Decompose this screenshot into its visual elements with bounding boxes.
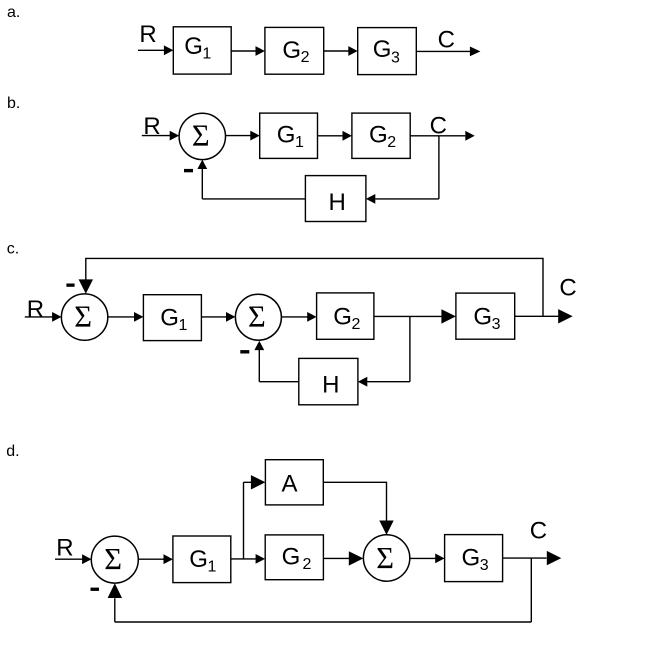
svg-text:G: G [282, 544, 301, 571]
block H (diagram c) [299, 358, 358, 404]
svg-text:G: G [473, 304, 492, 331]
svg-text:C: C [438, 27, 455, 54]
svg-text:R: R [56, 534, 73, 561]
svg-text:G: G [282, 37, 301, 64]
wire R input (diagram c) [25, 316, 53, 318]
wire G1 to G2 (diagram d) [231, 558, 256, 560]
wire sum2 to G2 (diagram c) [281, 316, 308, 318]
summing junction S2 (diagram c) [235, 294, 281, 340]
wire G2 to sum2 (diagram d) [323, 557, 350, 559]
minus sign (diagram d) [91, 588, 100, 591]
svg-text:d.: d. [6, 443, 19, 460]
svg-text:A: A [282, 471, 298, 498]
block G2 (diagram b) [352, 113, 410, 158]
svg-text:G: G [373, 36, 392, 63]
wire A to sum2 (diagram d) [323, 482, 386, 520]
svg-text:C: C [430, 113, 447, 140]
svg-text:Σ: Σ [74, 299, 92, 333]
svg-text:C: C [559, 275, 576, 302]
svg-text:a.: a. [7, 4, 20, 21]
wire outer feedback (diagram c) [86, 258, 543, 316]
wire R input (diagram b) [142, 135, 171, 137]
block A (diagram d) [265, 460, 323, 505]
svg-text:b.: b. [7, 95, 20, 112]
svg-text:G: G [160, 304, 179, 331]
summing junction S2 (diagram d) [363, 535, 409, 581]
wire G2 to G3 (diagram c) [374, 315, 442, 317]
wire feedback right segment (diagram b) [375, 198, 439, 200]
wire feedback left segment (diagram b) [202, 198, 305, 200]
wire sum to G1 (diagram b) [226, 135, 252, 137]
svg-text:3: 3 [492, 316, 501, 333]
svg-text:3: 3 [480, 557, 489, 574]
wire feedback tap (diagram b) [438, 136, 440, 199]
summing junction S1 (diagram d) [91, 536, 138, 583]
svg-text:H: H [329, 189, 346, 216]
wire G1 to sum2 (diagram c) [201, 316, 226, 318]
svg-text:2: 2 [387, 134, 396, 151]
svg-text:G: G [369, 121, 388, 148]
wire feedback up into sum (diagram b) [201, 169, 203, 199]
wire R input (diagram d) [55, 558, 83, 560]
block G2 (diagram a) [265, 27, 324, 74]
wire sum2 to G3 (diagram d) [410, 557, 436, 559]
block G2 (diagram c) [317, 293, 374, 339]
block G1 (diagram c) [143, 295, 201, 341]
wire sum1 to G1 (diagram c) [108, 316, 135, 318]
minus sign outer loop (diagram c) [66, 284, 74, 287]
svg-text:2: 2 [303, 556, 312, 573]
svg-text:G: G [462, 545, 481, 572]
svg-text:2: 2 [352, 316, 361, 333]
block H (diagram b) [305, 176, 366, 222]
svg-text:Σ: Σ [104, 542, 122, 576]
svg-text:G: G [333, 304, 352, 331]
wire branch up to A (diagram d) [244, 482, 252, 559]
wire inner feedback right (diagram c) [367, 381, 410, 383]
wire output C (diagram a) [416, 50, 470, 52]
wire R input (diagram a) [138, 49, 164, 51]
svg-text:1: 1 [208, 559, 217, 576]
svg-text:C: C [530, 518, 547, 545]
block G3 (diagram d) [445, 535, 503, 582]
block G1 (diagram d) [173, 536, 231, 583]
wire feedback up into sum1 (diagram d) [114, 598, 116, 622]
wire G1 to G2 (diagram a) [231, 50, 256, 52]
svg-text:Σ: Σ [192, 119, 210, 153]
svg-text:1: 1 [202, 46, 211, 63]
summing junction S1 (diagram c) [61, 294, 107, 340]
minus sign (diagram b) [184, 169, 193, 172]
svg-text:2: 2 [301, 49, 310, 66]
summing junction S1 (diagram b) [179, 113, 225, 159]
svg-text:H: H [322, 372, 339, 399]
block G3 (diagram c) [456, 293, 515, 339]
block G1 (diagram b) [260, 113, 318, 158]
wire inner feedback tap (diagram c) [409, 316, 411, 381]
wire output C (diagram b) [410, 135, 465, 137]
svg-text:1: 1 [295, 134, 304, 151]
block G1 (diagram a) [173, 27, 231, 74]
wire feedback bottom (diagram d) [115, 621, 532, 623]
wire feedback tap down (diagram d) [530, 558, 532, 622]
svg-text:Σ: Σ [376, 541, 394, 575]
wire G1 to G2 (diagram b) [318, 135, 344, 137]
svg-text:G: G [184, 33, 203, 60]
svg-text:1: 1 [179, 317, 188, 334]
wire output C (diagram c) [515, 315, 559, 317]
minus sign inner loop (diagram c) [240, 350, 249, 353]
svg-text:G: G [189, 546, 208, 573]
svg-text:3: 3 [391, 49, 400, 66]
svg-text:R: R [139, 21, 156, 48]
svg-text:R: R [27, 296, 44, 323]
wire sum1 to G1 (diagram d) [138, 558, 164, 560]
wire G2 to G3 (diagram a) [324, 50, 349, 52]
block G3 (diagram a) [358, 28, 417, 75]
svg-text:c.: c. [7, 241, 19, 258]
block G2 (diagram d) [265, 535, 323, 580]
wire inner feedback left (diagram c) [259, 350, 299, 382]
wire output C (diagram d) [503, 557, 547, 559]
svg-text:Σ: Σ [248, 300, 266, 334]
svg-text:G: G [277, 121, 296, 148]
